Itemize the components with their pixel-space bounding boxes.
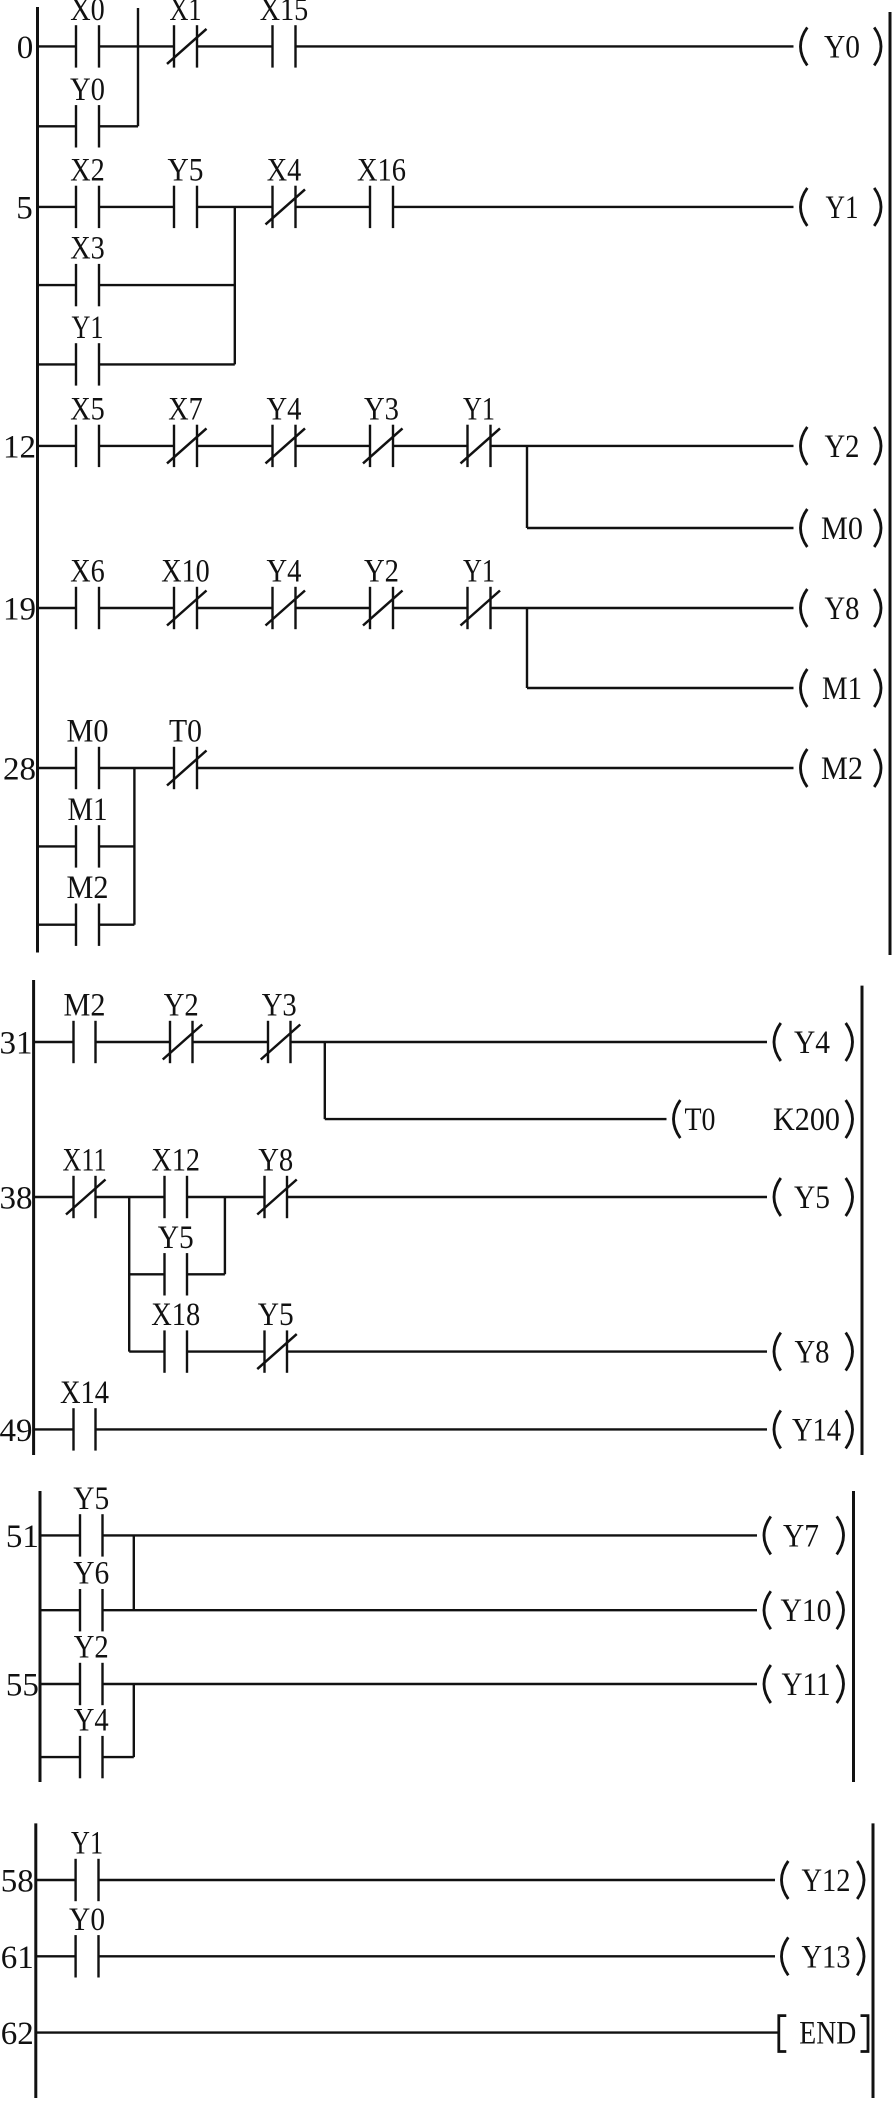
contact Y2 (NC) <box>363 554 403 630</box>
svg-text:M1: M1 <box>68 792 108 828</box>
rung address label 12 <box>3 429 36 465</box>
contact X7 (NC) <box>167 391 207 467</box>
contact Y1 (NC) <box>461 554 501 630</box>
contact X16 (NO) <box>357 152 406 228</box>
svg-text:T0: T0 <box>169 714 202 750</box>
contact M2 (NO) <box>67 870 109 946</box>
wire junction rung 31 to timer output <box>324 1042 326 1119</box>
svg-text:Y6: Y6 <box>73 1556 109 1592</box>
svg-text:Y2: Y2 <box>74 1630 109 1666</box>
svg-text:M1: M1 <box>822 671 862 707</box>
wire junction rung 12 to M0 output <box>526 446 528 528</box>
contact M0 (NO) <box>67 714 109 790</box>
svg-text:58: 58 <box>1 1864 34 1900</box>
rung address label 58 <box>1 1864 34 1900</box>
wire Y5 parallel branch <box>129 1273 225 1275</box>
left power rail (block 4) <box>34 1823 37 2098</box>
contact Y2 (NC) <box>163 988 203 1064</box>
wire junction rung 5 to parallel branches <box>234 207 236 365</box>
wire rung 61 <box>36 1955 775 1957</box>
contact Y1 (NC) <box>461 391 501 467</box>
rung address label 38 <box>0 1181 33 1217</box>
rung address label 61 <box>1 1940 34 1976</box>
wire Y6 branch line <box>40 1609 757 1611</box>
rung address label 62 <box>1 2016 34 2052</box>
wire rung 49 <box>34 1428 767 1430</box>
wire M1 output line <box>527 687 794 689</box>
wire M1 parallel branch <box>38 845 135 847</box>
rung address label 0 <box>17 30 34 66</box>
svg-text:Y4: Y4 <box>794 1025 830 1061</box>
svg-text:Y2: Y2 <box>364 554 399 590</box>
wire M0 output line <box>527 527 794 529</box>
svg-text:M0: M0 <box>67 714 109 750</box>
contact X0 (NO) <box>70 0 105 68</box>
svg-text:Y12: Y12 <box>802 1863 851 1899</box>
right power rail (block 1) <box>889 12 892 955</box>
END instruction <box>779 2016 868 2052</box>
svg-text:Y10: Y10 <box>781 1593 832 1629</box>
contact Y1 (NO) <box>71 1826 103 1902</box>
svg-text:Y0: Y0 <box>69 1902 105 1938</box>
left power rail (block 3) <box>39 1491 42 1782</box>
coil Y11 <box>764 1665 844 1703</box>
coil Y5 <box>774 1178 853 1216</box>
svg-text:28: 28 <box>3 752 36 788</box>
contact Y3 (NC) <box>363 391 403 467</box>
contact M2 (NO) <box>64 988 106 1064</box>
wire rung 0 <box>38 45 794 47</box>
contact Y0 (NO) <box>70 72 105 148</box>
svg-text:Y14: Y14 <box>792 1412 841 1448</box>
wire rung 38 <box>34 1196 767 1198</box>
contact Y5 (NC) <box>257 1297 297 1373</box>
contact Y3 (NC) <box>261 988 301 1064</box>
coil M0 <box>801 509 882 547</box>
svg-text:X15: X15 <box>260 0 309 28</box>
svg-text:Y5: Y5 <box>168 152 204 188</box>
coil Y4 <box>774 1023 853 1061</box>
svg-text:X6: X6 <box>70 554 105 590</box>
contact T0 (NC) <box>167 714 207 790</box>
wire X3 parallel branch <box>38 284 235 286</box>
contact X2 (NO) <box>70 152 105 228</box>
wire rung 58 <box>36 1879 775 1881</box>
contact M1 (NO) <box>68 792 108 868</box>
rung address label 51 <box>6 1519 39 1555</box>
svg-text:Y4: Y4 <box>267 554 302 590</box>
contact Y5 (NO) <box>73 1481 109 1557</box>
svg-text:Y5: Y5 <box>158 1220 194 1256</box>
wire X18 branch line <box>129 1350 767 1352</box>
svg-text:49: 49 <box>0 1413 33 1449</box>
right power rail (block 2) <box>861 986 864 1455</box>
contact Y0 (NO) <box>69 1902 105 1978</box>
wire Y4 parallel branch <box>40 1756 134 1758</box>
coil M2 <box>801 749 882 787</box>
wire junction rung 28 to parallel branches <box>133 768 135 925</box>
svg-text:Y0: Y0 <box>824 29 860 65</box>
svg-text:END: END <box>799 2016 856 2052</box>
svg-text:Y2: Y2 <box>825 429 860 465</box>
rung address label 19 <box>3 592 36 628</box>
contact X14 (NO) <box>60 1375 109 1451</box>
svg-text:M2: M2 <box>64 988 106 1024</box>
coil Y0 <box>801 27 882 65</box>
right power rail (block 3) <box>852 1491 855 1782</box>
svg-text:Y5: Y5 <box>794 1180 830 1216</box>
wire timer T0 output line <box>325 1118 667 1120</box>
rung address label 28 <box>3 752 36 788</box>
contact Y4 (NC) <box>266 554 306 630</box>
svg-text:M2: M2 <box>821 751 863 787</box>
wire rung 62 <box>36 2031 778 2033</box>
wire rung 12 <box>38 445 794 447</box>
coil Y13 <box>782 1937 865 1975</box>
svg-text:X7: X7 <box>168 391 203 427</box>
rung address label 55 <box>6 1668 39 1704</box>
contact X10 (NC) <box>161 554 210 630</box>
svg-text:X11: X11 <box>63 1143 107 1179</box>
coil Y8 <box>801 589 882 627</box>
contact Y4 (NO) <box>74 1703 109 1779</box>
coil Y14 <box>774 1410 853 1448</box>
svg-text:Y3: Y3 <box>262 988 297 1024</box>
svg-text:62: 62 <box>1 2016 34 2052</box>
coil Y2 <box>801 427 882 465</box>
timer coil T0 K200 <box>674 1100 853 1138</box>
svg-text:X14: X14 <box>60 1375 109 1411</box>
rung address label 5 <box>16 190 33 226</box>
svg-text:M0: M0 <box>821 511 863 547</box>
svg-text:61: 61 <box>1 1940 34 1976</box>
svg-text:X4: X4 <box>267 152 302 188</box>
svg-text:Y7: Y7 <box>783 1518 819 1554</box>
contact X11 (NC) <box>63 1143 107 1219</box>
rung address label 31 <box>0 1026 33 1062</box>
svg-text:K200: K200 <box>773 1102 840 1138</box>
coil Y7 <box>764 1516 844 1554</box>
wire M2 parallel branch <box>38 924 135 926</box>
svg-text:51: 51 <box>6 1519 39 1555</box>
svg-text:38: 38 <box>0 1181 33 1217</box>
svg-text:Y2: Y2 <box>164 988 199 1024</box>
contact Y5 (NO) <box>168 152 204 228</box>
svg-text:Y4: Y4 <box>267 391 302 427</box>
left power rail (block 2) <box>32 980 35 1455</box>
wire rung 5 <box>38 206 794 208</box>
svg-text:Y8: Y8 <box>825 591 860 627</box>
svg-text:Y1: Y1 <box>463 554 495 590</box>
svg-text:Y8: Y8 <box>795 1335 830 1371</box>
coil Y1 <box>801 188 882 226</box>
svg-text:31: 31 <box>0 1026 33 1062</box>
contact X18 (NO) <box>151 1297 200 1373</box>
wire Y0 parallel branch <box>38 125 139 127</box>
svg-text:Y4: Y4 <box>74 1703 109 1739</box>
svg-text:X3: X3 <box>70 231 105 267</box>
wire rung 28 <box>38 767 794 769</box>
wire rung 55 <box>40 1683 757 1685</box>
svg-text:5: 5 <box>16 190 33 226</box>
contact Y4 (NC) <box>266 391 306 467</box>
svg-text:T0: T0 <box>685 1102 716 1138</box>
svg-text:X10: X10 <box>161 554 210 590</box>
wire rung 51 <box>40 1534 757 1536</box>
svg-text:55: 55 <box>6 1668 39 1704</box>
svg-text:X18: X18 <box>151 1297 200 1333</box>
wire junction rung 38 left branch <box>128 1197 130 1352</box>
wire junction rung 0 to Y0 branch <box>137 8 139 126</box>
svg-text:Y3: Y3 <box>364 391 399 427</box>
svg-text:Y5: Y5 <box>258 1297 294 1333</box>
wire junction rung 55 to Y4 branch <box>133 1684 135 1757</box>
wire Y1 parallel branch <box>38 363 235 365</box>
contact X3 (NO) <box>70 231 105 307</box>
svg-text:Y5: Y5 <box>73 1481 109 1517</box>
left power rail (block 1) <box>36 7 39 953</box>
wire rung 31 <box>34 1041 767 1043</box>
contact X15 (NO) <box>260 0 309 68</box>
wire junction rung 51 to Y6 branch <box>133 1535 135 1610</box>
contact X5 (NO) <box>70 391 105 467</box>
svg-text:Y0: Y0 <box>70 72 105 108</box>
wire junction rung 19 to M1 output <box>526 608 528 688</box>
svg-text:12: 12 <box>3 429 36 465</box>
right power rail (block 4) <box>872 1823 875 2098</box>
svg-text:X2: X2 <box>70 152 105 188</box>
svg-text:M2: M2 <box>67 870 109 906</box>
svg-text:Y13: Y13 <box>802 1939 851 1975</box>
contact X4 (NC) <box>266 152 306 228</box>
svg-text:X16: X16 <box>357 152 406 188</box>
coil M1 <box>801 669 882 707</box>
svg-text:19: 19 <box>3 592 36 628</box>
svg-text:X1: X1 <box>170 0 202 28</box>
coil Y10 <box>764 1591 844 1629</box>
svg-text:Y1: Y1 <box>72 310 104 346</box>
contact X1 (NC) <box>167 0 207 68</box>
svg-text:Y1: Y1 <box>463 391 495 427</box>
rung address label 49 <box>0 1413 33 1449</box>
svg-text:X12: X12 <box>152 1143 201 1179</box>
contact X12 (NO) <box>152 1143 201 1219</box>
svg-text:X5: X5 <box>70 391 105 427</box>
wire junction rung 38 right of X12 <box>224 1197 226 1274</box>
svg-text:Y1: Y1 <box>826 190 859 226</box>
svg-text:X0: X0 <box>70 0 105 28</box>
svg-text:0: 0 <box>17 30 34 66</box>
svg-text:Y11: Y11 <box>782 1667 831 1703</box>
contact Y6 (NO) <box>73 1556 109 1632</box>
contact Y1 (NO) <box>72 310 104 386</box>
contact Y5 (NO) <box>158 1220 194 1296</box>
svg-text:Y8: Y8 <box>258 1143 293 1179</box>
contact Y2 (NO) <box>74 1630 109 1706</box>
contact Y8 (NC) <box>257 1143 297 1219</box>
wire rung 19 <box>38 607 794 609</box>
coil Y12 <box>782 1861 865 1899</box>
coil Y8b <box>774 1333 853 1371</box>
contact X6 (NO) <box>70 554 105 630</box>
svg-text:Y1: Y1 <box>71 1826 103 1862</box>
